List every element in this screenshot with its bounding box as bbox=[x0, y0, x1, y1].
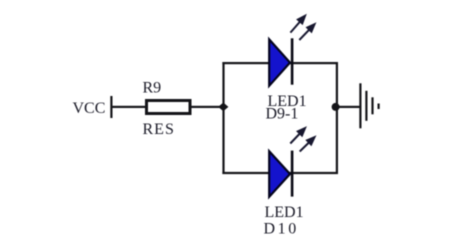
svg-text:LED1: LED1 bbox=[265, 204, 304, 221]
junction node A bbox=[218, 103, 228, 112]
LED D9-1 light arrow 2 bbox=[299, 23, 315, 40]
svg-text:RES: RES bbox=[143, 121, 175, 138]
LED D10 light arrow 2 bbox=[300, 136, 316, 152]
ground bar 1 bbox=[359, 83, 361, 128]
junction node B bbox=[332, 103, 340, 111]
svg-text:VCC: VCC bbox=[73, 100, 106, 117]
ground bar 4 bbox=[378, 104, 380, 110]
LED D9-1 cathode bar bbox=[291, 38, 294, 84]
wire right branch vertical bbox=[336, 62, 338, 174]
wire bottom branch horizontal bbox=[222, 172, 338, 174]
LED D9-1 triangle bbox=[269, 39, 290, 85]
wire VCC to R9 bbox=[112, 106, 146, 108]
wire R9 to node A bbox=[191, 106, 224, 108]
LED D9-1 light arrow 1 bbox=[290, 15, 306, 33]
VCC terminal bar bbox=[110, 96, 112, 118]
LED D10 cathode bar bbox=[291, 151, 294, 197]
svg-text:D9-1: D9-1 bbox=[266, 105, 299, 122]
wire node B to ground bbox=[338, 106, 360, 108]
ground bar 3 bbox=[371, 97, 373, 114]
wire left branch vertical bbox=[222, 62, 224, 174]
wire top branch horizontal bbox=[222, 62, 338, 64]
LED D10 triangle bbox=[269, 151, 290, 197]
svg-text:D10: D10 bbox=[264, 221, 299, 238]
LED D10 light arrow 1 bbox=[290, 127, 306, 144]
ground bar 2 bbox=[365, 91, 367, 121]
svg-text:R9: R9 bbox=[143, 80, 162, 97]
resistor R9 bbox=[147, 101, 191, 114]
